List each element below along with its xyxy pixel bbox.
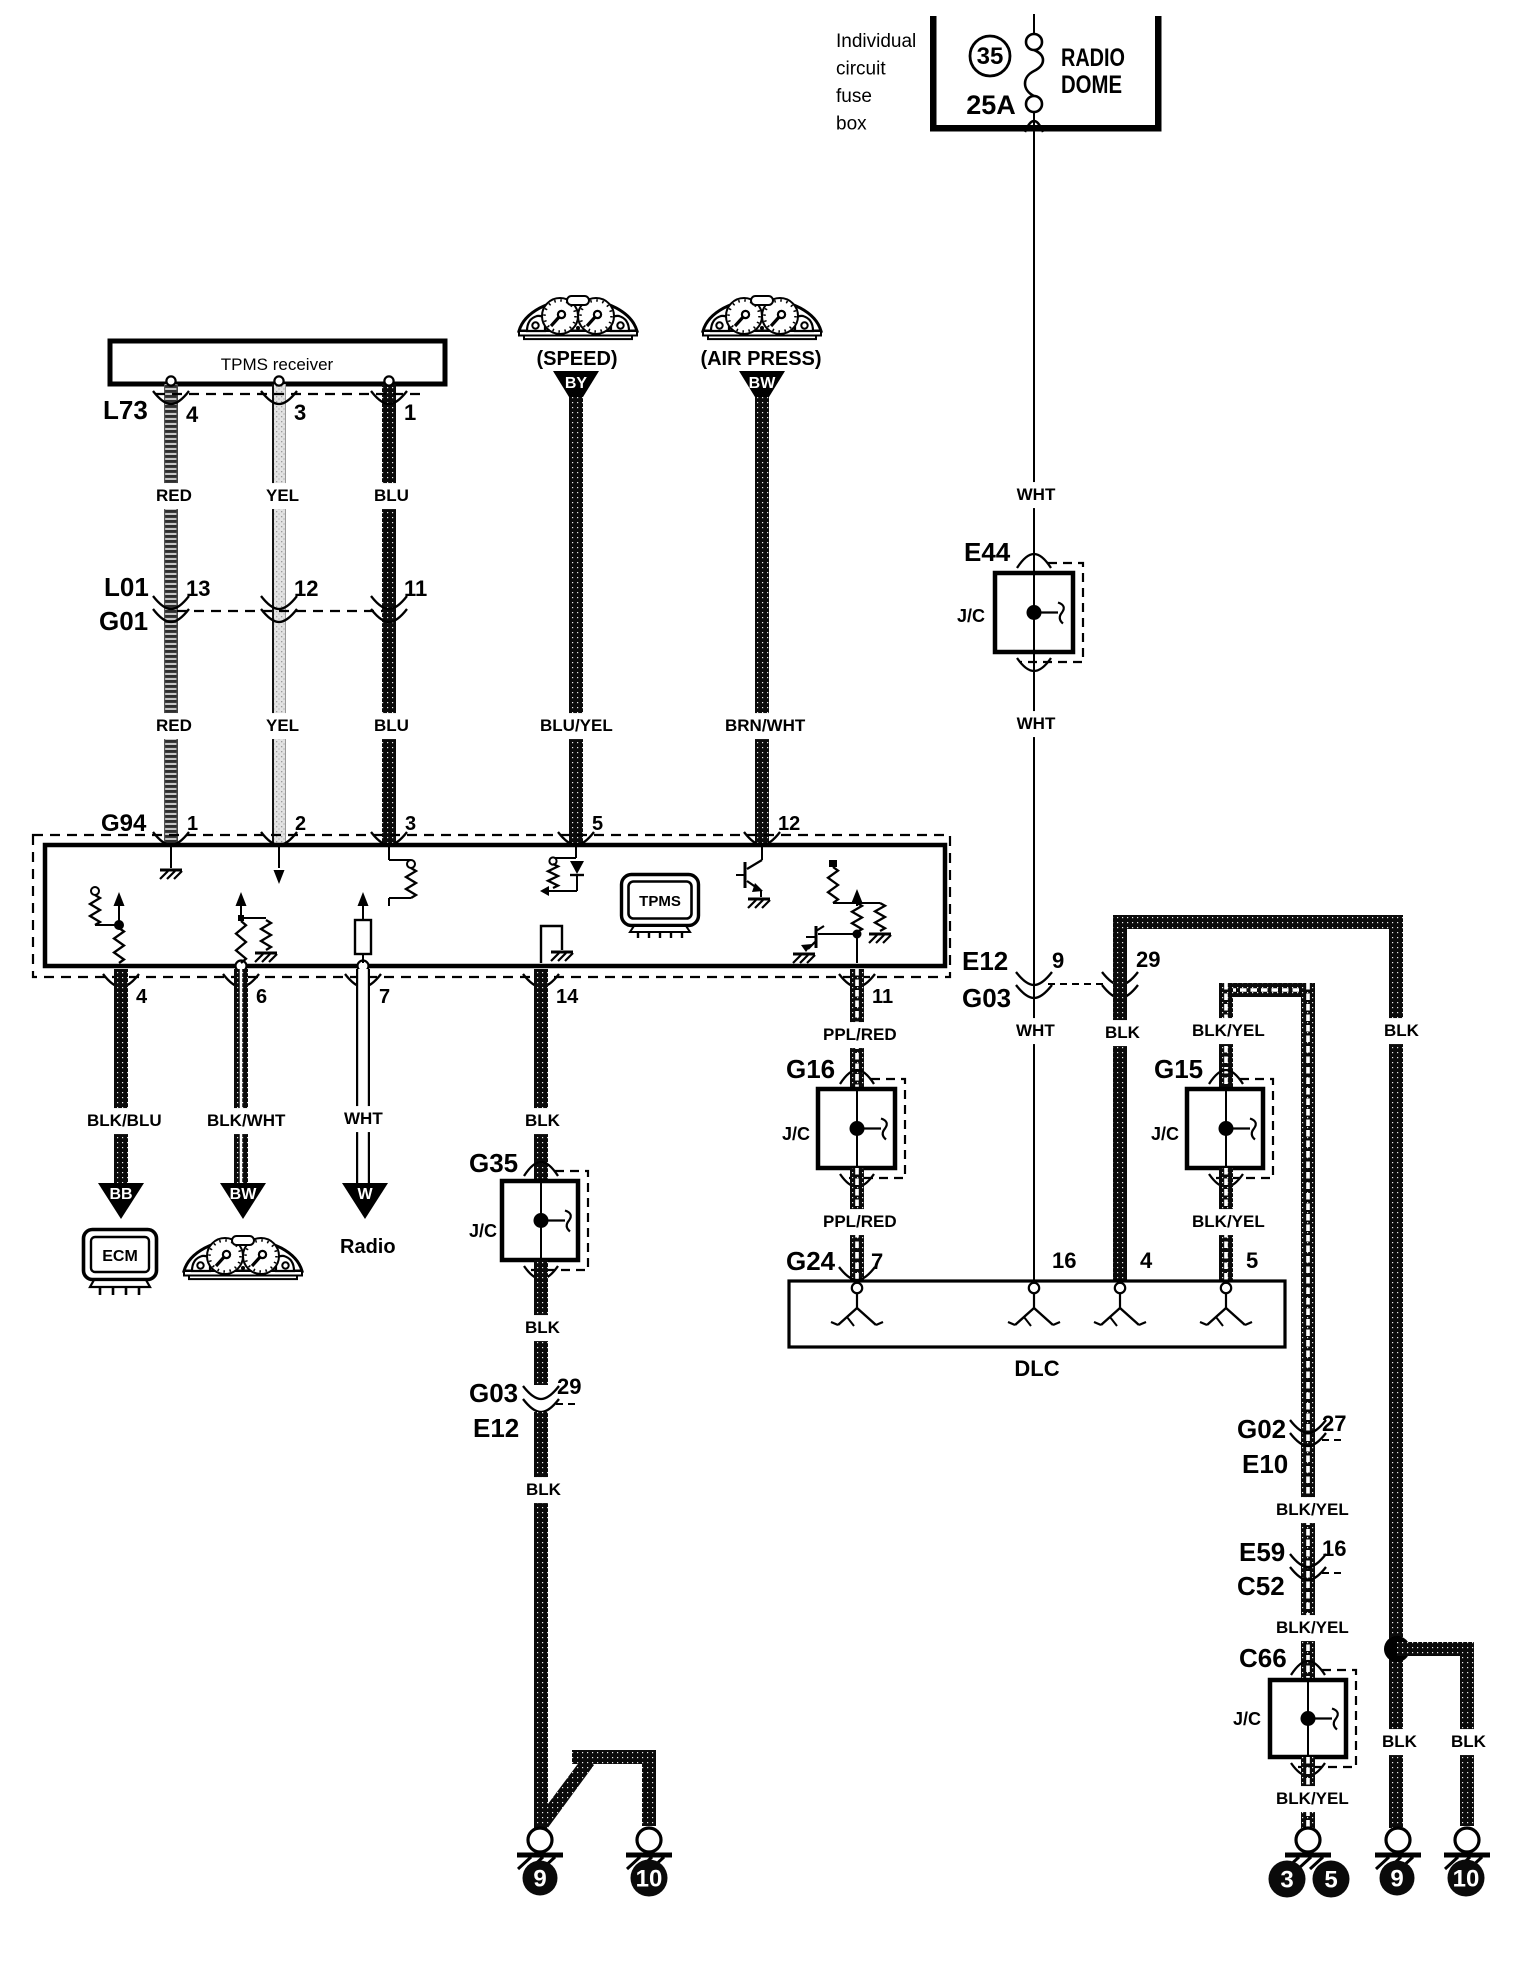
svg-text:12: 12 [778, 813, 800, 835]
DLC pin 7 terminal [831, 1283, 883, 1326]
wire through G35 [540, 1181, 542, 1260]
DLC pin 4 terminal [1094, 1283, 1146, 1326]
svg-text:13: 13 [186, 576, 210, 601]
ground badge 10 right [1448, 1860, 1485, 1897]
svg-text:BLK/YEL: BLK/YEL [1276, 1789, 1349, 1808]
svg-text:Radio: Radio [340, 1236, 396, 1258]
svg-text:4: 4 [186, 402, 199, 427]
ground terminal circle 10 left [637, 1828, 661, 1852]
connector chevron above G35 [524, 1162, 558, 1176]
connector chevron TPMS pin 6 [223, 974, 259, 987]
wire BLU/YEL from speedometer to TPMS pin 5 [569, 397, 583, 845]
svg-text:C66: C66 [1239, 1643, 1287, 1673]
label BLK ground 10 right [1448, 1729, 1485, 1755]
wire through G15 [1225, 1089, 1227, 1168]
wire through G16 [856, 1089, 858, 1168]
svg-text:BLU: BLU [374, 486, 409, 505]
label BLK/YEL below G15 [1189, 1209, 1266, 1235]
connector L01/G01 chevrons wire 13 [153, 596, 189, 609]
svg-text:29: 29 [557, 1374, 581, 1399]
svg-text:11: 11 [404, 576, 427, 601]
svg-text:WHT: WHT [1017, 714, 1056, 733]
connector L73 chevrons pin 4 [153, 391, 189, 404]
ground terminal circle 9 left [528, 1828, 552, 1852]
wire BLK/WHT from TPMS pin 6 to combination meter [234, 969, 248, 1183]
label BLK right leg [1381, 1018, 1418, 1044]
wire BLK/BLU from TPMS pin 4 to ECM [114, 969, 128, 1183]
fuse box caption Individual circuit fuse box [836, 31, 916, 135]
wire YEL from receiver pin 3 to TPMS pin 2 [272, 384, 286, 845]
svg-text:G24: G24 [786, 1246, 836, 1276]
label BLU upper [371, 483, 408, 509]
ground badge 9 right [1380, 1861, 1415, 1896]
connector L73 dashed line [155, 393, 420, 395]
svg-text:WHT: WHT [344, 1109, 383, 1128]
svg-text:G94: G94 [101, 810, 147, 837]
connector L01/G01 chevrons wire 12 [261, 596, 297, 609]
connector chevron below G15 [1209, 1174, 1243, 1187]
label BLK/BLU [84, 1108, 161, 1134]
label BRN/WHT [722, 713, 799, 739]
connector chevron above E44 [1017, 554, 1051, 568]
svg-text:1: 1 [187, 813, 198, 835]
svg-text:G35: G35 [469, 1148, 518, 1178]
svg-text:25A: 25A [966, 90, 1016, 120]
svg-text:DOME: DOME [1061, 71, 1122, 99]
junction block C66 J/C box [1270, 1680, 1346, 1757]
svg-text:9: 9 [1052, 948, 1064, 973]
instrument cluster icon SPEED [519, 296, 637, 339]
internal resistor branch pin 3 [389, 845, 416, 906]
junction connector C66 dashed outline [1294, 1670, 1356, 1767]
DLC pin 5 terminal [1200, 1283, 1252, 1326]
svg-text:YEL: YEL [266, 486, 299, 505]
label BLK/YEL bottom [1273, 1786, 1350, 1812]
fuse 35 25A symbol [966, 14, 1043, 131]
connector chevron below E44 [1017, 658, 1051, 671]
ground terminal circle 10 right [1455, 1828, 1479, 1852]
junction connector G16 dashed outline [843, 1079, 905, 1178]
svg-text:G01: G01 [99, 606, 148, 636]
svg-text:E44: E44 [964, 537, 1011, 567]
junction block G15 J/C box [1187, 1089, 1263, 1168]
svg-text:BLK: BLK [525, 1111, 561, 1130]
branch hook G15 [1233, 1127, 1250, 1129]
label WHT above DLC [1013, 1018, 1050, 1044]
svg-text:RADIO: RADIO [1061, 44, 1125, 72]
connector chevron above G16 [840, 1070, 874, 1084]
internal series resistor above pin 7 [355, 892, 371, 963]
arrow BW to meter [220, 1183, 266, 1219]
junction dot C66 [1301, 1711, 1316, 1726]
internal clamp resistor and diode pin 5 [540, 845, 584, 896]
funnel arrow BY [553, 371, 599, 397]
TPMS icon inside module [622, 875, 699, 939]
svg-text:E12: E12 [473, 1413, 519, 1443]
junction dot G35 [534, 1213, 549, 1228]
wire through C66 [1307, 1680, 1309, 1757]
svg-text:RED: RED [156, 486, 192, 505]
svg-text:BLK: BLK [526, 1480, 562, 1499]
wire RED from receiver pin 4 to TPMS pin 1 [164, 384, 178, 845]
svg-text:BLK/BLU: BLK/BLU [87, 1111, 162, 1130]
svg-text:1: 1 [404, 400, 416, 425]
svg-text:G15: G15 [1154, 1054, 1203, 1084]
connector chevron TPMS pin 4 [103, 974, 139, 987]
terminal circles at receiver [166, 376, 393, 385]
svg-text:G03: G03 [469, 1378, 518, 1408]
connector L01/G01 chevrons wire 11 [371, 596, 407, 609]
wire BLK inverted-U to DLC pin 4 and grounds [1113, 915, 1403, 1828]
svg-text:9: 9 [533, 1866, 546, 1893]
connector G94 chevron pin 5 [558, 832, 594, 845]
svg-text:J/C: J/C [469, 1221, 497, 1241]
label BLK at DLC leg [1102, 1020, 1139, 1046]
internal ground loop above pin 14 [541, 926, 573, 963]
svg-text:PPL/RED: PPL/RED [823, 1212, 897, 1231]
svg-text:3: 3 [405, 813, 416, 835]
TPMS receiver box [110, 341, 445, 384]
wire BLK from G03/E12 to ground 9 [534, 1412, 548, 1828]
svg-text:BLK/WHT: BLK/WHT [207, 1111, 286, 1130]
TPMS control module box [45, 845, 945, 966]
svg-text:16: 16 [1322, 1536, 1346, 1561]
wire BLK/YEL from G15 to DLC pin 5 [1219, 1168, 1233, 1287]
individual circuit fuse box enclosure [930, 16, 1162, 132]
connector chevron TPMS pin 14 [523, 974, 559, 987]
wire BLK from G35 to G03/E12 [534, 1260, 548, 1385]
svg-text:circuit: circuit [836, 59, 886, 80]
label BLU/YEL [537, 713, 614, 739]
junction dot G15 [1219, 1121, 1234, 1136]
ground terminal circle 9 right [1386, 1828, 1410, 1852]
label PPL/RED below G16 [820, 1209, 897, 1235]
junction dot G16 [850, 1121, 865, 1136]
instrument cluster icon bottom [184, 1236, 302, 1279]
svg-text:L01: L01 [104, 572, 149, 602]
svg-text:BLK: BLK [525, 1318, 561, 1337]
svg-text:29: 29 [1136, 947, 1160, 972]
internal divider above pin 6 [236, 892, 278, 963]
svg-text:PPL/RED: PPL/RED [823, 1025, 897, 1044]
svg-text:7: 7 [871, 1249, 883, 1274]
svg-text:E12: E12 [962, 946, 1008, 976]
ground badge 10 left [631, 1860, 668, 1897]
svg-text:G03: G03 [962, 983, 1011, 1013]
connector chevron TPMS pin 7 [345, 974, 381, 987]
svg-text:(AIR PRESS): (AIR PRESS) [700, 348, 821, 370]
connector G94 chevron pin 12 [744, 832, 780, 845]
svg-text:BLU/YEL: BLU/YEL [540, 716, 613, 735]
ground badge 5 [1313, 1861, 1350, 1898]
junction block G35 J/C box [502, 1181, 578, 1260]
connector L73 chevrons pin 1 [371, 391, 407, 404]
svg-text:G02: G02 [1237, 1414, 1286, 1444]
svg-text:DLC: DLC [1014, 1356, 1059, 1381]
label PPL/RED above G16 [820, 1022, 897, 1048]
branch BLK to ground 10 right [1397, 1642, 1474, 1826]
svg-text:BW: BW [749, 375, 777, 392]
svg-text:BLK: BLK [1105, 1023, 1141, 1042]
svg-text:E59: E59 [1239, 1537, 1285, 1567]
svg-text:6: 6 [256, 986, 267, 1008]
svg-text:10: 10 [636, 1866, 663, 1893]
label RED upper [153, 483, 190, 509]
svg-text:9: 9 [1390, 1866, 1403, 1893]
internal arrow below pin 2 [274, 845, 285, 884]
internal transistor below pin 12 [736, 845, 770, 908]
wire BLK from TPMS pin 14 to G35 [534, 969, 548, 1181]
branch hook E44 [1041, 611, 1058, 613]
wire PPL/RED from TPMS pin 11 to G16 [850, 969, 864, 1089]
DLC pin 16 terminal [1008, 1283, 1060, 1326]
svg-text:2: 2 [295, 813, 306, 835]
svg-text:10: 10 [1453, 1866, 1480, 1893]
connector chevron below C66 [1291, 1763, 1325, 1776]
svg-text:L73: L73 [103, 395, 148, 425]
svg-text:box: box [836, 114, 867, 135]
ground badge 3 [1269, 1861, 1306, 1898]
wire WHT from fuse box to E44 [1033, 131, 1035, 573]
connector chevron below G16 [840, 1174, 874, 1187]
label RED lower [153, 713, 190, 739]
svg-text:3: 3 [294, 400, 306, 425]
svg-text:3: 3 [1280, 1867, 1293, 1894]
svg-text:11: 11 [872, 986, 893, 1008]
svg-text:J/C: J/C [957, 606, 985, 626]
DLC data link connector box [789, 1281, 1285, 1347]
label WHT at pin 7 [341, 1106, 378, 1132]
instrument cluster icon AIR PRESS [703, 296, 821, 339]
TPMS control module dashed connector G94 outline [33, 835, 950, 977]
svg-text:BRN/WHT: BRN/WHT [725, 716, 806, 735]
connector chevron TPMS pin 11 [839, 974, 875, 987]
label WHT upper [1018, 482, 1055, 508]
connector E12/G03 between WHT and BLK [1016, 972, 1138, 998]
svg-text:BLK/YEL: BLK/YEL [1192, 1212, 1265, 1231]
label BLK ground 9 right [1379, 1729, 1416, 1755]
label BLK/YEL mid1 [1273, 1497, 1350, 1523]
wire WHT from E44 to DLC pin 16 [1033, 652, 1035, 1287]
junction block E44 J/C box [995, 573, 1073, 652]
svg-text:TPMS receiver: TPMS receiver [221, 355, 334, 374]
svg-text:fuse: fuse [836, 86, 872, 107]
svg-text:BLU: BLU [374, 716, 409, 735]
branch hook C66 [1315, 1717, 1332, 1719]
svg-text:G16: G16 [786, 1054, 835, 1084]
internal ground below pin 1 [160, 845, 182, 879]
label BLK above ground 9 [523, 1477, 560, 1503]
svg-text:BLK: BLK [1451, 1732, 1487, 1751]
svg-text:(SPEED): (SPEED) [536, 348, 617, 370]
junction dot on BLK right leg [1384, 1636, 1410, 1662]
label WHT lower [1018, 711, 1055, 737]
terminal circles TPMS bottom [236, 961, 369, 972]
svg-text:BLK/YEL: BLK/YEL [1192, 1021, 1265, 1040]
junction dot E44 [1027, 605, 1042, 620]
svg-text:4: 4 [1140, 1248, 1153, 1273]
junction connector E44 dashed outline [1020, 563, 1083, 662]
svg-text:7: 7 [379, 986, 390, 1008]
ground terminal circle 3/5 [1296, 1828, 1320, 1852]
label BLK/YEL above G15 [1189, 1018, 1266, 1044]
connector G94 chevron pin 1 [153, 832, 189, 845]
connector G24 chevron [839, 1267, 875, 1280]
ECM icon [84, 1230, 157, 1296]
svg-text:BW: BW [230, 1186, 258, 1203]
label BLK below G35 [522, 1315, 559, 1341]
svg-text:35: 35 [977, 43, 1004, 70]
wire BLU from receiver pin 1 to TPMS pin 3 [382, 384, 396, 845]
junction block G16 J/C box [818, 1089, 895, 1168]
connector chevron above C66 [1291, 1661, 1325, 1675]
svg-text:YEL: YEL [266, 716, 299, 735]
connector G94 chevron pin 3 [371, 832, 407, 845]
svg-text:BY: BY [565, 375, 588, 392]
svg-text:BLK: BLK [1382, 1732, 1418, 1751]
wire through E44 [1033, 573, 1035, 652]
connector G94 chevron pin 2 [261, 832, 297, 845]
wire WHT from TPMS pin 7 to radio [356, 969, 370, 1183]
svg-text:4: 4 [136, 986, 148, 1008]
junction connector G35 dashed outline [527, 1171, 588, 1270]
label YEL upper [263, 483, 300, 509]
connector G03/E12 on BLK wire [523, 1386, 578, 1412]
internal pull-up and sensing network above pin 4 [90, 887, 125, 963]
arrow BB to ECM [98, 1183, 144, 1219]
label BLK/WHT [204, 1108, 281, 1134]
connector E59/C52 on BLK/YEL [1290, 1554, 1344, 1580]
svg-text:14: 14 [556, 986, 579, 1008]
label BLU lower [371, 713, 408, 739]
connector arc at fuse box exit [1025, 121, 1043, 132]
ground badge 9 left [523, 1861, 558, 1896]
branch wire BLK to ground 10 [536, 1750, 656, 1829]
label BLK/YEL mid2 [1273, 1615, 1350, 1641]
fuse output label RADIO DOME [1061, 44, 1125, 99]
wire BLK/YEL from C66 to ground [1301, 1757, 1315, 1828]
svg-text:16: 16 [1052, 1248, 1076, 1273]
wire PPL/RED from G16 to DLC pin 7 [850, 1168, 864, 1287]
svg-text:5: 5 [592, 813, 603, 835]
label BLK above G35 [522, 1108, 559, 1134]
svg-text:J/C: J/C [782, 1124, 810, 1144]
branch hook G35 [548, 1219, 565, 1221]
svg-text:5: 5 [1324, 1867, 1337, 1894]
svg-text:WHT: WHT [1017, 485, 1056, 504]
svg-text:BLK/YEL: BLK/YEL [1276, 1500, 1349, 1519]
connector L01 G01 dashed line [177, 610, 383, 612]
svg-text:C52: C52 [1237, 1571, 1285, 1601]
wire BRN/WHT from air gauge to TPMS pin 12 [755, 397, 769, 845]
svg-text:WHT: WHT [1016, 1021, 1055, 1040]
connector chevron above G15 [1209, 1070, 1243, 1084]
svg-text:BB: BB [109, 1186, 132, 1203]
svg-text:RED: RED [156, 716, 192, 735]
svg-text:Individual: Individual [836, 31, 916, 52]
arrow W to radio [342, 1183, 388, 1219]
svg-text:E10: E10 [1242, 1449, 1288, 1479]
svg-text:12: 12 [294, 576, 318, 601]
branch hook G16 [864, 1127, 881, 1129]
svg-text:BLK/YEL: BLK/YEL [1276, 1618, 1349, 1637]
funnel arrow BW [739, 371, 785, 397]
svg-text:W: W [357, 1186, 373, 1203]
label YEL lower [263, 713, 300, 739]
svg-text:J/C: J/C [1233, 1709, 1261, 1729]
wire BLK/YEL inverted-U [1219, 983, 1315, 1680]
internal output stage above pin 11 [793, 860, 891, 963]
svg-text:BLK: BLK [1384, 1021, 1420, 1040]
svg-text:27: 27 [1322, 1411, 1346, 1436]
svg-text:J/C: J/C [1151, 1124, 1179, 1144]
connector L73 chevrons pin 3 [261, 391, 297, 404]
junction connector G15 dashed outline [1212, 1079, 1273, 1178]
connector chevron below G35 [524, 1266, 558, 1279]
connector G02/E10 on BLK/YEL [1290, 1420, 1344, 1446]
svg-text:5: 5 [1246, 1248, 1258, 1273]
